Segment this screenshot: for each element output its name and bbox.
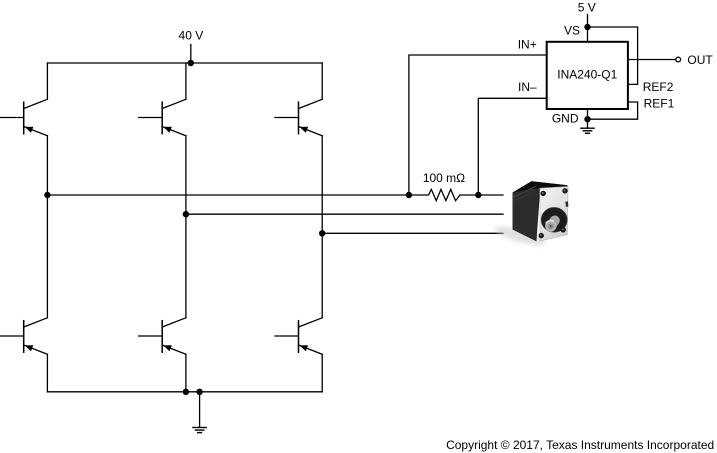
wire phase C high-side collector to rail	[321, 63, 323, 99]
wire phase A mid vertical (half-bridge output)	[46, 136, 48, 318]
node phase C junction	[319, 230, 325, 236]
transistor Q5 (phase C high-side)	[275, 99, 322, 136]
wire phase B mid vertical (half-bridge output)	[185, 136, 187, 318]
wire OUT pin	[628, 59, 676, 61]
svg-text:Copyright © 2017, Texas Instru: Copyright © 2017, Texas Instruments Inco…	[446, 438, 714, 452]
svg-text:VS: VS	[564, 23, 580, 37]
svg-text:INA240-Q1: INA240-Q1	[557, 68, 617, 82]
wire REF1 pin to GND node	[588, 102, 638, 119]
junction dot 40V on top rail	[188, 60, 194, 66]
wire phase A low-side emitter to bottom rail	[46, 354, 48, 392]
wire 5V stub to VS pin	[587, 15, 589, 42]
transistor Q1 (phase A high-side)	[0, 99, 47, 136]
junction dot low-side emitter node	[183, 389, 189, 395]
junction dot ground tap	[196, 389, 202, 395]
wire phase B high-side collector to rail	[185, 63, 187, 99]
wire bottom ground rail	[47, 391, 322, 393]
ground symbol (INA240 GND)	[581, 128, 594, 133]
wire 5V to REF2 pin	[588, 27, 638, 84]
wire phase C output to motor	[322, 232, 503, 234]
junction dot shunt left node	[406, 192, 412, 198]
wire 40V stub	[190, 45, 192, 64]
resistor R1 100 mOhm shunt	[429, 189, 461, 200]
wire IN- sense from shunt right node	[478, 98, 546, 195]
wire shunt right to motor phase A	[460, 194, 503, 196]
transistor Q3 (phase B high-side)	[139, 99, 186, 136]
junction dot 5V node	[584, 24, 590, 30]
ground symbol (bridge)	[193, 428, 206, 433]
wire phase B output to motor	[186, 213, 503, 215]
transistor Q6 (phase C low-side)	[275, 318, 322, 355]
wire GND pin	[587, 109, 589, 128]
wire phase B low-side emitter to bottom rail	[185, 354, 187, 392]
wire phase C mid vertical (half-bridge output)	[321, 136, 323, 318]
stepper motor (photo)	[493, 181, 568, 249]
op-amp U1 INA240-Q1 body	[547, 42, 628, 109]
transistor Q4 (phase B low-side)	[139, 318, 186, 355]
transistor Q2 (phase A low-side)	[0, 318, 47, 355]
wire phase A high-side collector to rail	[46, 63, 48, 99]
node phase A junction	[44, 192, 50, 198]
svg-text:40 V: 40 V	[179, 28, 204, 42]
svg-text:IN–: IN–	[518, 80, 537, 94]
svg-text:REF2: REF2	[643, 80, 674, 94]
junction dot GND node	[584, 116, 590, 122]
junction dot shunt right node	[475, 192, 481, 198]
svg-text:IN+: IN+	[518, 37, 537, 51]
wire phase A output to shunt	[47, 194, 428, 196]
wire IN+ sense from shunt left node	[409, 55, 547, 195]
svg-text:REF1: REF1	[644, 97, 675, 111]
wire top +40V rail	[47, 62, 322, 64]
svg-text:5 V: 5 V	[578, 1, 596, 15]
svg-text:100 mΩ: 100 mΩ	[423, 171, 465, 185]
wire ground stub from bottom rail	[199, 392, 201, 428]
svg-text:OUT: OUT	[687, 53, 713, 67]
svg-text:GND: GND	[552, 111, 579, 125]
wire phase C low-side emitter to bottom rail	[321, 354, 323, 392]
terminal circle OUT	[676, 57, 681, 62]
node phase B junction	[183, 211, 189, 217]
